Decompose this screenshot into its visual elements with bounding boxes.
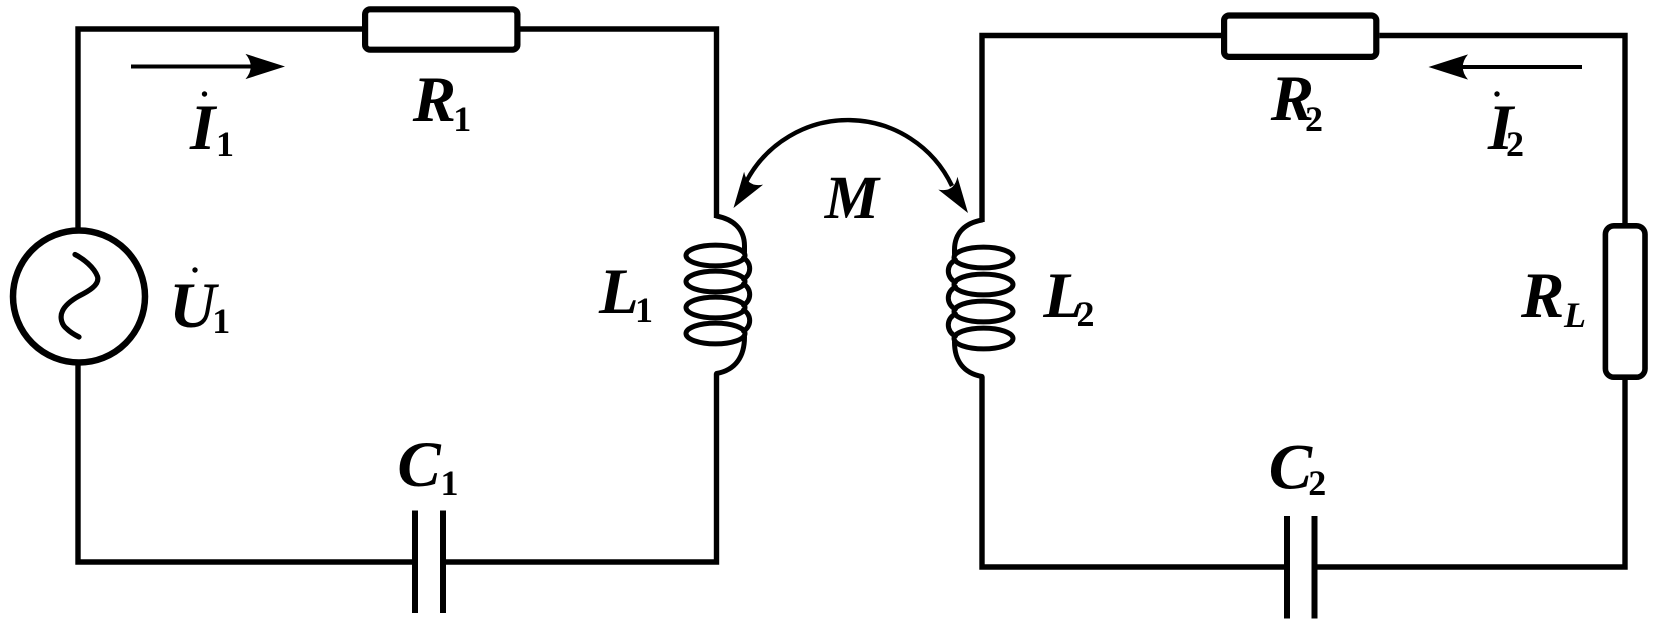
svg-text:R: R	[1520, 260, 1564, 332]
svg-text:2: 2	[1305, 99, 1323, 139]
svg-text:1: 1	[453, 99, 471, 139]
svg-text:2: 2	[1506, 124, 1524, 164]
svg-text:L: L	[598, 256, 639, 328]
svg-text:C: C	[1269, 431, 1313, 503]
svg-text:R: R	[412, 64, 456, 136]
svg-text:1: 1	[441, 463, 459, 503]
svg-text:M: M	[824, 165, 881, 232]
svg-text:I: I	[189, 92, 218, 164]
svg-text:L: L	[1563, 295, 1586, 335]
svg-text:1: 1	[216, 124, 234, 164]
svg-text:1: 1	[635, 290, 653, 330]
svg-text:2: 2	[1077, 294, 1095, 334]
svg-text:C: C	[397, 429, 441, 501]
svg-text:1: 1	[212, 301, 230, 341]
svg-text:2: 2	[1308, 463, 1326, 503]
